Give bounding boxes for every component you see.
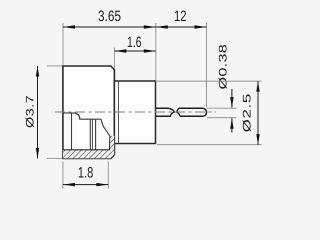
dim Ø3.7 [37,66,39,158]
cavity fillet + floor [75,113,102,119]
dim Ø2.5 extension lines [157,80,262,82]
dim 12 [156,26,207,28]
extension line body-right (1.6) [113,48,115,69]
dim 3.65 [63,26,156,28]
contact tube [89,120,91,150]
dim 1.8 extension lines [62,162,64,189]
hatched shell section [63,136,114,159]
centerline [55,111,216,113]
cylinder seam [118,82,120,144]
dim Ø3.7 extension lines [47,65,62,67]
dim Ø0.38 leader [231,89,233,108]
dim Ø2.5 [257,81,259,145]
cavity cone [101,119,110,136]
pin break right [177,108,180,116]
dim 1.6 [114,50,155,52]
pin segment 2 with rounded tip [179,108,207,116]
pin segment 1 [156,108,171,116]
extension line body-left top [62,23,64,65]
cylinder (Ø2.5 section) [114,81,155,144]
extension line pin tip [206,23,208,107]
cavity left wall [71,113,73,150]
dim 1.8 [63,184,108,186]
dim Ø0.38 extension lines [207,107,237,109]
extension line cyl-right top [155,23,157,80]
pin break left [169,108,175,116]
body outline [63,66,115,158]
body cavity: mouth lip [63,112,75,114]
